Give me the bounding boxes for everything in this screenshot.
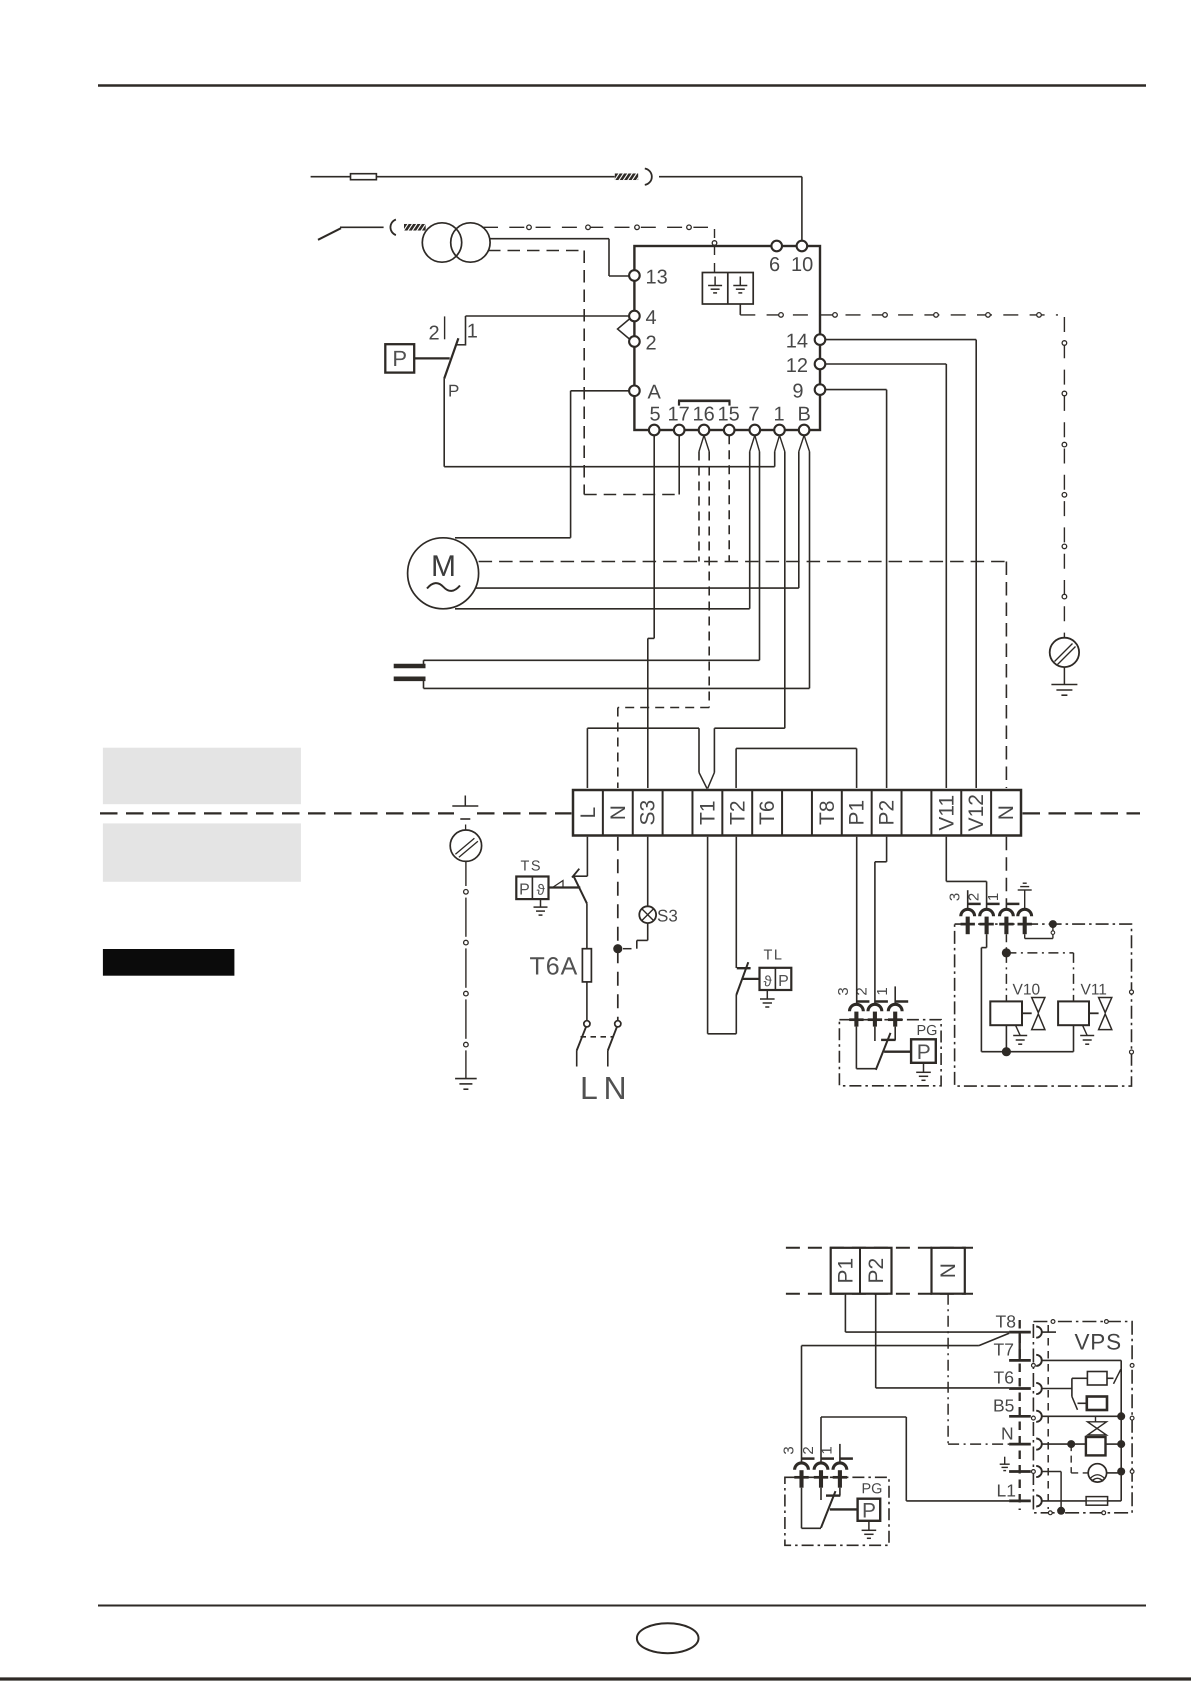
svg-text:P: P [392,346,407,371]
svg-text:N: N [607,805,630,820]
svg-text:V11: V11 [1080,982,1106,999]
svg-text:T8: T8 [995,1312,1015,1332]
svg-text:1: 1 [773,404,784,426]
svg-text:P: P [519,881,530,898]
svg-text:B: B [797,404,810,426]
svg-text:5: 5 [649,404,660,426]
svg-text:P2: P2 [876,800,899,826]
svg-text:1: 1 [467,321,478,343]
svg-text:PG: PG [916,1023,937,1039]
svg-text:3: 3 [780,1446,797,1454]
svg-text:12: 12 [786,355,808,377]
svg-text:P2: P2 [865,1258,888,1284]
svg-text:ϑ: ϑ [763,973,772,990]
svg-text:M: M [431,550,456,583]
svg-text:P: P [862,1499,876,1522]
svg-text:PG: PG [861,1481,882,1497]
svg-text:17: 17 [667,404,689,426]
svg-text:V10: V10 [1012,982,1040,999]
svg-text:14: 14 [786,330,808,352]
svg-text:P: P [448,382,459,401]
svg-text:S3: S3 [637,800,660,826]
svg-text:VPS: VPS [1074,1330,1121,1355]
svg-text:7: 7 [748,404,759,426]
svg-text:T6: T6 [993,1368,1013,1388]
svg-text:N: N [995,805,1018,820]
svg-text:T6A: T6A [529,953,578,981]
svg-text:9: 9 [792,380,803,402]
svg-text:15: 15 [717,404,739,426]
svg-text:T7: T7 [993,1340,1013,1360]
svg-text:TS: TS [520,859,542,875]
svg-text:L: L [580,1070,598,1106]
svg-text:10: 10 [791,254,813,276]
svg-text:3: 3 [835,987,852,995]
svg-text:3: 3 [947,893,964,901]
svg-text:6: 6 [769,254,780,276]
svg-text:P: P [778,973,789,990]
svg-text:V11: V11 [935,795,958,831]
svg-text:ϑ: ϑ [537,882,546,899]
svg-text:B5: B5 [993,1396,1014,1416]
svg-text:16: 16 [692,404,714,426]
svg-text:P: P [917,1041,931,1064]
svg-text:2: 2 [428,323,439,345]
svg-text:T2: T2 [726,800,749,825]
svg-text:A: A [647,382,661,404]
svg-text:N: N [937,1263,960,1278]
svg-text:1: 1 [985,893,1002,901]
svg-text:4: 4 [645,307,656,329]
svg-text:T1: T1 [696,800,719,825]
svg-text:L: L [577,807,600,819]
svg-text:N: N [1001,1424,1014,1444]
svg-text:1: 1 [874,987,891,995]
svg-text:TL: TL [763,948,783,964]
svg-text:1: 1 [819,1446,836,1454]
svg-text:S3: S3 [657,907,678,926]
svg-text:2: 2 [800,1446,817,1454]
svg-text:T8: T8 [816,800,839,825]
svg-text:P1: P1 [835,1258,858,1284]
svg-text:T6: T6 [756,800,779,825]
svg-text:13: 13 [645,267,667,289]
svg-text:2: 2 [645,333,656,355]
svg-text:V12: V12 [965,794,988,831]
svg-text:N: N [603,1070,626,1106]
svg-text:L1: L1 [996,1481,1015,1501]
svg-text:P1: P1 [846,800,869,826]
